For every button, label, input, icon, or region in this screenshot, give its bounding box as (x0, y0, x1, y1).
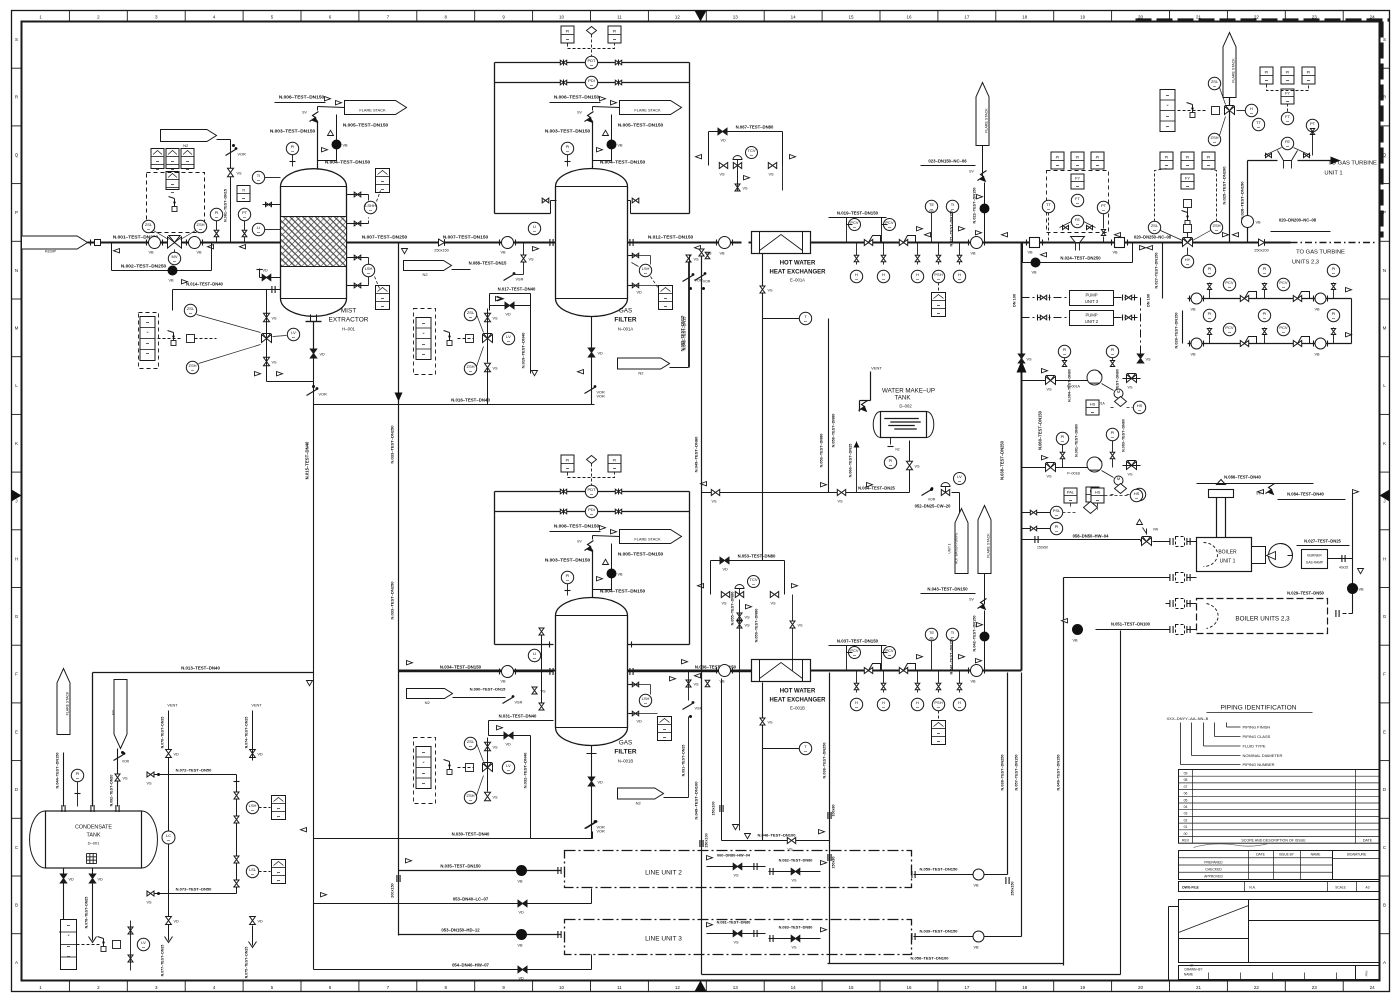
svg-text:UNITS 2,3: UNITS 2,3 (1292, 260, 1319, 266)
svg-text:•••: ••• (1153, 229, 1156, 233)
svg-text:PIPING CLASS: PIPING CLASS (1243, 734, 1271, 739)
svg-text:VS: VS (745, 616, 751, 620)
svg-text:•••: ••• (1111, 436, 1114, 440)
svg-text:TI: TI (242, 188, 246, 193)
svg-text:DWG FILE: DWG FILE (1182, 886, 1199, 890)
svg-text:•••: ••• (566, 467, 569, 471)
svg-text:EXTRACTOR: EXTRACTOR (329, 317, 369, 324)
svg-text:N.006–TEST–DN150: N.006–TEST–DN150 (554, 524, 600, 530)
svg-text:•••: ••• (853, 654, 856, 658)
svg-text:P–001B: P–001B (1067, 472, 1080, 476)
svg-text:E: E (1383, 729, 1386, 734)
svg-text:PCV: PCV (1225, 280, 1234, 285)
svg-text:•••: ••• (644, 272, 647, 276)
svg-text:•••: ••• (381, 188, 384, 192)
svg-text:•••: ••• (291, 150, 294, 154)
svg-text:N.037–TEST–DN150: N.037–TEST–DN150 (837, 639, 879, 644)
svg-text:N.028–TEST–DN150: N.028–TEST–DN150 (1175, 313, 1179, 349)
svg-text:PI: PI (1111, 347, 1115, 352)
svg-text:NAME: NAME (1184, 973, 1193, 977)
svg-text:N.015–TEST–DN40: N.015–TEST–DN40 (305, 441, 310, 479)
svg-text:•••: ••• (566, 579, 569, 583)
svg-text:•••: ••• (277, 871, 280, 875)
svg-text:VD: VD (174, 920, 180, 924)
svg-text:•••: ••• (1213, 85, 1216, 89)
svg-text:•••: ••• (882, 706, 885, 710)
svg-text:N.064–TEST–DN25: N.064–TEST–DN25 (858, 486, 895, 491)
svg-text:E–001B: E–001B (790, 706, 805, 711)
svg-text:TT: TT (1256, 120, 1261, 125)
svg-text:250x150: 250x150 (434, 249, 449, 253)
svg-text:•••: ••• (663, 728, 666, 732)
svg-text:•••: ••• (1186, 164, 1189, 168)
svg-text:B: B (1383, 902, 1386, 907)
svg-text:VS: VS (123, 777, 129, 781)
svg-text:•••: ••• (590, 513, 593, 517)
svg-text:•••: ••• (156, 160, 159, 164)
svg-text:054–DN40–HW–07: 054–DN40–HW–07 (452, 963, 489, 968)
svg-text:•••: ••• (882, 278, 885, 282)
svg-text:LC: LC (166, 833, 171, 838)
svg-text:N.056–TEST–DN80: N.056–TEST–DN80 (820, 434, 824, 468)
svg-text:SCOPE AND DESCRIPTION OF ISSUE: SCOPE AND DESCRIPTION OF ISSUE (1241, 839, 1306, 843)
svg-text:N.078–TEST–DN25: N.078–TEST–DN25 (85, 897, 89, 929)
svg-text:150x80: 150x80 (832, 857, 836, 869)
svg-text:•••: ••• (958, 480, 961, 484)
svg-text:HEAT EXCHANGER: HEAT EXCHANGER (770, 698, 827, 704)
svg-text:•••: ••• (67, 945, 70, 949)
svg-text:N.005–TEST–DN150: N.005–TEST–DN150 (618, 123, 664, 129)
svg-text:BURNER: BURNER (1307, 554, 1322, 558)
svg-text:VB: VB (1191, 353, 1197, 357)
svg-text:•••: ••• (1076, 202, 1079, 206)
svg-text:•••: ••• (156, 168, 159, 172)
svg-text:•••: ••• (937, 732, 940, 736)
svg-text:TI: TI (951, 630, 955, 635)
svg-text:•••: ••• (146, 321, 149, 325)
svg-text:PDI: PDI (588, 507, 595, 512)
svg-text:A3: A3 (1365, 886, 1369, 890)
svg-text:•••: ••• (1102, 209, 1105, 213)
svg-text:•••: ••• (1282, 331, 1285, 335)
svg-text:VS: VS (493, 796, 499, 800)
svg-text:SCALE: SCALE (1335, 886, 1345, 890)
svg-text:N.076–TEST–DN15: N.076–TEST–DN15 (161, 717, 165, 749)
svg-text:•••: ••• (1286, 120, 1289, 124)
svg-text:•••: ••• (855, 278, 858, 282)
svg-text:200x150: 200x150 (391, 883, 395, 897)
svg-text:•••: ••• (1228, 286, 1231, 290)
svg-text:FT: FT (1075, 196, 1080, 201)
svg-text:11: 11 (617, 15, 622, 20)
svg-text:LI: LI (533, 651, 536, 656)
svg-text:VB: VB (1073, 639, 1079, 643)
svg-text:PI: PI (566, 29, 570, 34)
svg-text:•••: ••• (277, 879, 280, 883)
svg-text:058–DN50–HW–04: 058–DN50–HW–04 (1073, 534, 1109, 539)
svg-text:•••: ••• (251, 873, 254, 877)
svg-text:TCV: TCV (750, 577, 758, 582)
svg-text:•••: ••• (1166, 125, 1169, 129)
svg-text:VB: VB (518, 944, 524, 948)
svg-text:N2: N2 (425, 700, 431, 705)
svg-text:05: 05 (1184, 798, 1188, 802)
svg-text:•••: ••• (171, 183, 174, 187)
svg-text:•••: ••• (171, 191, 174, 195)
svg-text:•••: ••• (566, 38, 569, 42)
svg-text:VS: VS (768, 721, 774, 725)
svg-text:FY: FY (1185, 176, 1190, 181)
svg-text:MIST: MIST (341, 308, 357, 315)
svg-text:N2: N2 (636, 801, 642, 806)
svg-text:M: M (15, 325, 19, 330)
svg-text:PDT: PDT (588, 58, 597, 63)
svg-text:•••: ••• (171, 160, 174, 164)
svg-text:13: 13 (733, 15, 739, 20)
svg-text:LSH: LSH (642, 696, 650, 701)
svg-text:H: H (855, 272, 858, 277)
svg-text:PI: PI (1286, 70, 1290, 75)
svg-text:PI: PI (1208, 266, 1212, 271)
svg-text:DATE: DATE (1363, 839, 1373, 843)
svg-text:UNIT 1: UNIT 1 (1220, 559, 1236, 565)
svg-text:•••: ••• (958, 278, 961, 282)
svg-text:SV: SV (969, 170, 974, 174)
svg-text:N.004–TEST–DN150: N.004–TEST–DN150 (600, 160, 646, 166)
svg-text:VB: VB (720, 680, 726, 684)
svg-text:N2: N2 (895, 448, 899, 452)
svg-text:10: 10 (559, 985, 565, 990)
svg-text:H: H (15, 556, 18, 561)
svg-text:PI: PI (1063, 347, 1067, 352)
svg-text:H: H (1383, 556, 1386, 561)
svg-text:PSH: PSH (934, 700, 942, 705)
svg-text:40x25: 40x25 (1339, 566, 1348, 570)
svg-text:PI: PI (1263, 266, 1267, 271)
svg-text:HS: HS (1137, 403, 1143, 408)
svg-text:UNIT 1: UNIT 1 (948, 543, 952, 553)
svg-text:•••: ••• (1257, 126, 1260, 130)
svg-text:PI: PI (1165, 155, 1169, 160)
svg-text:TI: TI (951, 202, 955, 207)
svg-text:VB: VB (343, 144, 349, 148)
svg-text:N.038–TEST–DN250: N.038–TEST–DN250 (1001, 755, 1005, 791)
svg-text:•••: ••• (613, 38, 616, 42)
svg-text:N2: N2 (638, 371, 644, 376)
svg-text:VOR: VOR (597, 395, 605, 399)
svg-text:•••: ••• (1213, 141, 1216, 145)
svg-text:•••: ••• (381, 180, 384, 184)
svg-text:N.061–TEST–DN80: N.061–TEST–DN80 (1075, 424, 1079, 457)
svg-text:•••: ••• (663, 736, 666, 740)
svg-text:N.091–TEST–DN15: N.091–TEST–DN15 (682, 745, 686, 777)
svg-text:HS: HS (1090, 402, 1096, 407)
svg-text:VS: VS (493, 746, 499, 750)
svg-text:K: K (15, 441, 18, 446)
svg-text:VS: VS (493, 367, 499, 371)
svg-text:ZSH: ZSH (197, 222, 205, 227)
svg-text:•••: ••• (191, 369, 194, 373)
svg-text:VB: VB (1113, 251, 1119, 255)
svg-text:UNIT 2: UNIT 2 (1085, 319, 1099, 324)
svg-text:N.030–TEST–DN40: N.030–TEST–DN40 (452, 832, 490, 837)
svg-text:ZSH: ZSH (189, 363, 197, 368)
svg-text:H–001: H–001 (342, 327, 355, 332)
svg-text:N2: N2 (423, 272, 429, 277)
svg-text:N.043–TEST–DN150: N.043–TEST–DN150 (927, 587, 968, 592)
svg-text:18: 18 (1022, 15, 1028, 20)
svg-text:PI: PI (76, 771, 80, 776)
svg-text:VB: VB (501, 251, 507, 255)
svg-text:LV: LV (506, 763, 511, 768)
svg-text:PI: PI (566, 144, 570, 149)
svg-text:VOR: VOR (597, 830, 605, 834)
svg-text:•••: ••• (1282, 286, 1285, 290)
svg-text:N.034–TEST–DN150: N.034–TEST–DN150 (440, 665, 482, 670)
svg-text:FLARE STACK: FLARE STACK (634, 537, 661, 542)
svg-text:PI: PI (1076, 155, 1080, 160)
svg-text:N.049–TEST–DN150: N.049–TEST–DN150 (1057, 755, 1061, 791)
svg-text:N.019–TEST–DN40: N.019–TEST–DN40 (521, 332, 526, 368)
svg-text:N.042–TEST–DN150: N.042–TEST–DN150 (973, 616, 977, 652)
svg-text:LSL: LSL (249, 867, 257, 872)
svg-text:MV: MV (172, 254, 178, 259)
svg-text:24: 24 (1370, 985, 1376, 990)
svg-text:PSH: PSH (934, 272, 942, 277)
svg-text:•••: ••• (937, 706, 940, 710)
svg-text:18: 18 (1022, 985, 1028, 990)
svg-text:N.017–TEST–DN40: N.017–TEST–DN40 (498, 287, 536, 292)
svg-text:VS: VS (272, 317, 278, 321)
svg-text:LI: LI (533, 224, 536, 229)
svg-text:04: 04 (1184, 805, 1188, 809)
svg-text:16: 16 (906, 15, 912, 20)
svg-text:TT: TT (1046, 202, 1051, 207)
svg-text:•••: ••• (277, 807, 280, 811)
svg-text:VS: VS (745, 624, 751, 628)
svg-text:N–001B: N–001B (618, 759, 634, 764)
svg-text:•••: ••• (422, 772, 425, 776)
svg-text:•••: ••• (937, 312, 940, 316)
svg-text:•••: ••• (888, 654, 891, 658)
svg-text:N.073–TEST–DN50: N.073–TEST–DN50 (176, 887, 212, 892)
svg-text:H: H (882, 700, 885, 705)
svg-text:TANK: TANK (894, 395, 911, 402)
svg-text:•••: ••• (1111, 353, 1114, 357)
svg-text:•••: ••• (664, 297, 667, 301)
svg-text:BOILER UNITS 2,3: BOILER UNITS 2,3 (1235, 616, 1290, 623)
svg-text:•••: ••• (381, 297, 384, 301)
svg-text:N.024–TEST–DN250: N.024–TEST–DN250 (1060, 256, 1101, 261)
svg-text:N.006–TEST–DN150: N.006–TEST–DN150 (554, 95, 600, 101)
svg-text:053–DN40–LC–07: 053–DN40–LC–07 (453, 897, 489, 902)
svg-text:•••: ••• (533, 657, 536, 661)
svg-text:S: S (1383, 37, 1386, 42)
svg-text:•••: ••• (1166, 115, 1169, 119)
svg-text:•••: ••• (533, 230, 536, 234)
svg-text:08: 08 (1184, 778, 1188, 782)
svg-text:G: G (1383, 614, 1387, 619)
svg-text:VB: VB (971, 680, 977, 684)
svg-text:11: 11 (617, 985, 622, 990)
svg-text:PI: PI (1056, 155, 1060, 160)
svg-text:A: A (1383, 960, 1386, 965)
svg-text:M: M (1117, 476, 1120, 481)
svg-text:•••: ••• (855, 706, 858, 710)
svg-text:PI: PI (889, 458, 893, 463)
svg-text:10: 10 (559, 15, 565, 20)
svg-text:LV: LV (957, 474, 962, 479)
svg-text:D–002: D–002 (899, 404, 912, 409)
svg-text:VW: VW (1153, 528, 1159, 532)
svg-text:ZSL: ZSL (1151, 223, 1159, 228)
svg-text:12: 12 (675, 15, 681, 20)
svg-text:•••: ••• (1076, 185, 1079, 189)
svg-text:N: N (15, 268, 18, 273)
svg-text:•••: ••• (76, 777, 79, 781)
svg-text:N.055–TEST–DN80: N.055–TEST–DN80 (731, 592, 735, 626)
svg-text:•••: ••• (937, 740, 940, 744)
svg-text:F: F (1383, 672, 1386, 677)
svg-text:PI: PI (613, 29, 617, 34)
svg-text:ISSUE BY: ISSUE BY (1279, 853, 1295, 857)
svg-text:A: A (15, 960, 18, 965)
svg-text:M: M (1117, 389, 1120, 394)
svg-text:•••: ••• (381, 305, 384, 309)
svg-text:GAS RAMP: GAS RAMP (1306, 561, 1324, 565)
svg-text:VB: VB (1032, 271, 1038, 275)
svg-text:N.019–TEST–DN150: N.019–TEST–DN150 (837, 211, 879, 216)
svg-text:VS: VS (712, 500, 718, 504)
svg-text:N.056–TEST–DN100: N.056–TEST–DN100 (911, 956, 950, 961)
svg-text:SV: SV (302, 111, 307, 115)
svg-text:PI: PI (291, 144, 295, 149)
svg-text:•••: ••• (590, 64, 593, 68)
svg-text:N–001A: N–001A (618, 327, 634, 332)
svg-text:TO GAS TURBINE: TO GAS TURBINE (1328, 161, 1377, 167)
svg-text:VS: VS (768, 289, 774, 293)
svg-text:FILTER: FILTER (614, 317, 637, 324)
svg-text:LINE UNIT 2: LINE UNIT 2 (645, 870, 682, 877)
svg-text:GAS: GAS (619, 740, 632, 747)
svg-text:•••: ••• (507, 769, 510, 773)
svg-text:03: 03 (1184, 812, 1188, 816)
svg-text:07: 07 (1184, 785, 1188, 789)
svg-text:•••: ••• (215, 216, 218, 220)
svg-text:N.026–TEST–DN150: N.026–TEST–DN150 (1240, 181, 1245, 220)
svg-text:VB: VB (1315, 353, 1321, 357)
svg-text:H: H (958, 272, 961, 277)
svg-text:VS: VS (798, 624, 804, 628)
svg-text:VB: VB (618, 144, 624, 148)
svg-text:B: B (15, 902, 18, 907)
svg-text:•••: ••• (422, 353, 425, 357)
svg-text:PCV: PCV (1225, 325, 1234, 330)
svg-text:09: 09 (1184, 772, 1188, 776)
svg-text:N2: N2 (183, 143, 189, 148)
svg-text:13: 13 (733, 985, 739, 990)
svg-text:PI: PI (1061, 434, 1065, 439)
svg-text:VD: VD (506, 743, 512, 747)
svg-text:17: 17 (964, 15, 970, 20)
svg-text:VS: VS (769, 173, 775, 177)
svg-text:N.083–TEST–DN80: N.083–TEST–DN80 (779, 926, 813, 930)
svg-text:•••: ••• (186, 168, 189, 172)
svg-text:14: 14 (791, 985, 797, 990)
svg-text:150x100: 150x100 (705, 833, 709, 847)
svg-text:053–DN150–HD–12: 053–DN150–HD–12 (441, 928, 480, 933)
svg-text:•••: ••• (67, 924, 70, 928)
svg-text:VS: VS (1128, 473, 1134, 477)
svg-text:PI: PI (1207, 155, 1211, 160)
svg-text:VB: VB (149, 251, 155, 255)
svg-text:•••: ••• (1207, 164, 1210, 168)
svg-text:N.005–TEST–DN150: N.005–TEST–DN150 (343, 123, 389, 129)
svg-text:N.038–TEST–DN250: N.038–TEST–DN250 (1000, 440, 1005, 480)
svg-text:•••: ••• (1056, 164, 1059, 168)
svg-text:DRAWN–BY: DRAWN–BY (1185, 968, 1204, 972)
svg-text:VS: VS (743, 187, 749, 191)
svg-text:TE: TE (929, 202, 934, 207)
svg-text:LSH: LSH (642, 266, 650, 271)
svg-text:APPROVED: APPROVED (1204, 875, 1223, 879)
svg-text:VS: VS (1047, 388, 1053, 392)
svg-text:VOR: VOR (238, 153, 246, 157)
svg-text:LV: LV (141, 940, 146, 945)
svg-text:K: K (1383, 441, 1386, 446)
svg-text:UNIT 1: UNIT 1 (1324, 171, 1342, 177)
svg-text:PIPING IDENTIFICATION: PIPING IDENTIFICATION (1220, 705, 1296, 712)
svg-text:TI: TI (257, 173, 261, 178)
svg-text:FLUID TYPE: FLUID TYPE (1243, 744, 1266, 749)
svg-text:VS: VS (1027, 358, 1033, 362)
svg-text:PCV: PCV (1279, 280, 1288, 285)
svg-text:PI: PI (1307, 70, 1311, 75)
svg-text:VS: VS (771, 602, 777, 606)
svg-text:•••: ••• (1215, 229, 1218, 233)
svg-text:N.013–TEST–DN40: N.013–TEST–DN40 (181, 666, 220, 671)
svg-text:LV: LV (506, 334, 511, 339)
svg-text:N.033–TEST–DN250: N.033–TEST–DN250 (390, 581, 395, 620)
svg-text:20: 20 (1138, 985, 1144, 990)
svg-text:PSL: PSL (1053, 508, 1061, 513)
svg-text:•••: ••• (251, 809, 254, 813)
svg-text:•••: ••• (367, 272, 370, 276)
svg-text:ZSH: ZSH (467, 793, 475, 798)
svg-text:VS: VS (707, 252, 713, 256)
svg-text:•••: ••• (146, 342, 149, 346)
svg-text:N.092–TEST–DN20: N.092–TEST–DN20 (110, 775, 114, 807)
svg-text:N.088–TEST–DN15: N.088–TEST–DN15 (469, 261, 507, 266)
svg-text:VB: VB (1191, 308, 1197, 312)
svg-text:023–DN150–NC–06: 023–DN150–NC–06 (928, 159, 967, 164)
svg-text:N.090–TEST–DN15: N.090–TEST–DN15 (470, 687, 506, 692)
svg-text:19: 19 (1080, 15, 1086, 20)
svg-text:LV: LV (291, 330, 296, 335)
svg-text:N.084–TEST–DN40: N.084–TEST–DN40 (1287, 492, 1324, 497)
svg-text:•••: ••• (1076, 164, 1079, 168)
svg-text:SIGNATURE: SIGNATURE (1347, 853, 1367, 857)
svg-text:PT: PT (242, 210, 248, 215)
svg-text:FLARE STACK: FLARE STACK (359, 108, 386, 113)
svg-text:N.022–TEST–DN150: N.022–TEST–DN150 (973, 188, 977, 224)
svg-text:VS: VS (694, 258, 700, 262)
svg-text:FLARE STACK: FLARE STACK (66, 691, 70, 715)
svg-text:N.038–TEST–DN250: N.038–TEST–DN250 (823, 743, 827, 779)
svg-text:100x80: 100x80 (832, 805, 836, 817)
svg-text:•••: ••• (67, 955, 70, 959)
svg-text:14: 14 (791, 15, 797, 20)
